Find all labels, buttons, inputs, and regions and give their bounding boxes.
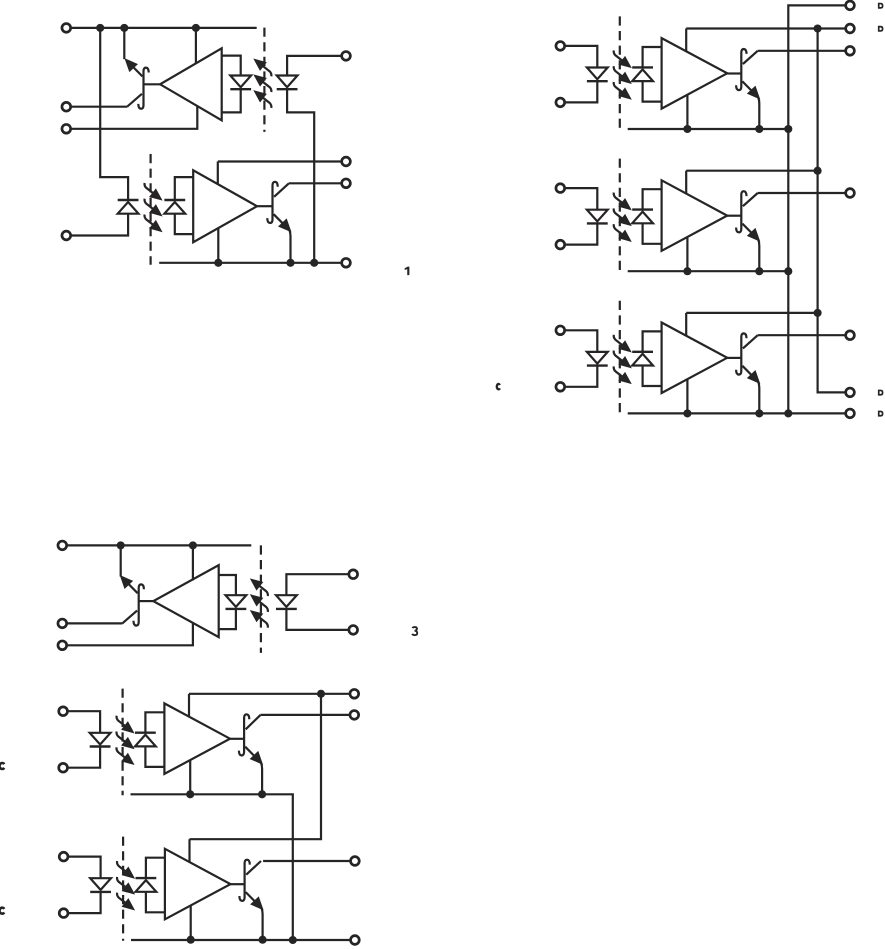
- wire base G4ch2: [231, 883, 245, 885]
- wire G1 photodiode D2 top: [175, 177, 193, 200]
- light arrow G4ch2-3: [117, 893, 127, 904]
- wire G1 VCC2 line: [218, 160, 342, 162]
- emitter wire to rail G2ch3: [758, 382, 759, 414]
- light arrow G1 lower-1: [145, 183, 155, 194]
- amplifier G2ch2: [662, 180, 728, 251]
- label GND D: [878, 411, 884, 417]
- wire G2 gnd rail ch3: [628, 412, 846, 414]
- light arrow G4ch1-2: [117, 732, 127, 743]
- wire G1 VCC top rail: [70, 27, 257, 29]
- light arrow G4ch1-3: [117, 747, 127, 758]
- junction G1 rail to amp A1: [192, 24, 200, 32]
- junction emitter G4ch2: [259, 936, 267, 944]
- wire G2 out ch3: [758, 334, 846, 336]
- wire G1 amp A1 vcc: [195, 28, 197, 64]
- transistor bar G4ch2: [239, 860, 249, 901]
- wire G1 GND2 rail: [159, 262, 342, 264]
- wire G4ch1 cathode: [67, 747, 100, 768]
- terminal G4 pin VO2: [351, 857, 360, 866]
- emitter wire to rail G2ch1: [758, 98, 759, 130]
- terminal G2 pin VO1: [846, 46, 855, 55]
- op-amp A1 (G1 receive amp): [160, 48, 222, 120]
- photodiode G2ch3: [632, 354, 653, 366]
- wire G1 VO2 output: [289, 182, 342, 184]
- junction amp gnd G2ch1: [683, 125, 691, 133]
- junction amp gnd G2ch2: [683, 267, 691, 275]
- isolation barrier G4ch1: [121, 689, 123, 796]
- terminal G2 pin GND: [846, 409, 855, 418]
- wire photodiode top G2ch1: [643, 47, 662, 67]
- light arrow G4ch2-1: [117, 861, 127, 872]
- wire photodiode bottom G2ch2: [643, 223, 662, 244]
- wire G1 photodiode D1 bottom: [222, 89, 241, 112]
- light arrow G2ch2-3: [614, 224, 624, 235]
- wire G1 LED2 anode: [70, 214, 128, 236]
- label figure 3: [412, 627, 417, 635]
- photodiode D1 (G1 receive): [230, 76, 251, 88]
- =G1= top-left dual bidirectional optocoupler: [62, 24, 409, 276]
- wire G1 photodiode D1 top: [222, 56, 241, 76]
- junction amp gnd G2ch3: [683, 409, 691, 417]
- terminal G4 pin GND: [351, 936, 360, 945]
- wire G3 photodiode bottom: [219, 609, 236, 629]
- emitter wire to rail G4ch2: [262, 908, 263, 940]
- wire Q2 emitter to rail: [290, 230, 291, 262]
- wire amp gnd G4ch1: [189, 760, 191, 794]
- photodiode G4ch2: [136, 880, 157, 892]
- emitter wire to rail G4ch1: [261, 763, 262, 795]
- collector lead G2ch1: [743, 51, 758, 64]
- terminal G1 pin GND1: [62, 124, 71, 133]
- junction G1 LED1 cathode on rail: [310, 259, 318, 267]
- light arrow G2ch3-3: [614, 366, 624, 377]
- wire photodiode top G2ch3: [643, 331, 662, 351]
- wire G2 gnd rail ch2: [628, 270, 789, 272]
- wire amp gnd G2ch2: [686, 237, 688, 271]
- junction G2 rail3-busA: [784, 409, 792, 417]
- junction amp gnd G4ch2: [187, 936, 195, 944]
- emitter with arrow G2ch3: [742, 366, 757, 381]
- terminal G3 pin VO: [58, 619, 67, 628]
- wire G1 LED1 anode: [287, 56, 342, 76]
- =channel G4 ch1=: [59, 689, 266, 799]
- wire base G2ch2: [727, 215, 741, 217]
- wire amp vcc G2ch2: [685, 171, 687, 194]
- wire G2ch2 cathode: [564, 223, 597, 244]
- wire G2 VDD line ch2: [686, 170, 817, 172]
- junction emitter G4ch1: [258, 790, 266, 798]
- wire G2ch3 cathode: [564, 366, 597, 387]
- light arrow G2ch1-3: [614, 82, 624, 93]
- wire G3 photodiode top: [219, 575, 236, 595]
- light arrow G3-3: [258, 616, 268, 627]
- light arrow G2ch3-2: [614, 351, 624, 362]
- =G4= bottom-left dual transmit channels: [0, 689, 359, 945]
- wire G3 amp vcc: [192, 545, 194, 580]
- terminal G1 pin VCC: [62, 24, 71, 33]
- =channel G2 ch2=: [556, 159, 763, 276]
- amplifier G2ch1: [662, 38, 728, 109]
- transistor Q3 collector lead: [122, 611, 137, 624]
- label node C (G2): [497, 384, 500, 389]
- wire G1 amp A2 gnd: [217, 228, 219, 262]
- photodiode G4ch1: [135, 735, 156, 747]
- G2ch1 anode input terminal: [556, 42, 565, 51]
- junction G2 rail1-busA: [784, 125, 792, 133]
- transistor bar G2ch3: [736, 333, 746, 374]
- LED G2ch2: [587, 210, 608, 222]
- isolation barrier G1 upper: [263, 28, 265, 132]
- wire G2 out ch2: [758, 192, 846, 194]
- wire G4 gnd rail ch1: [131, 794, 293, 940]
- transistor Q1 collector lead: [127, 94, 142, 107]
- amplifier G4ch1: [164, 703, 230, 774]
- terminal G1 pin GND2: [342, 258, 351, 267]
- wire base G2ch3: [727, 357, 741, 359]
- junction emitter G2ch2: [755, 267, 763, 275]
- G4ch1 cathode input terminal: [59, 763, 68, 772]
- wire G3 LED cathode: [286, 609, 349, 630]
- wire G1 amp A2 vcc: [217, 162, 219, 185]
- transistor Q3 emitter with arrow: [123, 578, 138, 593]
- G4ch1 anode input terminal: [59, 707, 68, 716]
- junction G1 amp A2 gnd: [214, 259, 222, 267]
- =channel G2 ch1=: [556, 16, 763, 133]
- wire amp vcc G4ch1: [188, 694, 190, 717]
- junction G4 rail drop: [289, 936, 297, 944]
- wire amp vcc G2ch3: [685, 313, 687, 336]
- terminal G1 pin A2: [62, 231, 71, 240]
- terminal G1 pin VO1: [62, 102, 71, 111]
- junction G2 vdd2-busB: [814, 167, 822, 175]
- wire base G2ch1: [727, 72, 741, 74]
- =G3= bottom-left single receive channel: [58, 541, 417, 653]
- wire G3 LED anode: [286, 574, 349, 595]
- wire photodiode top G4ch1: [145, 712, 164, 732]
- light arrow G2ch3-1: [614, 335, 624, 346]
- wire G2 busB: [818, 29, 846, 393]
- G4ch2 anode input terminal: [59, 852, 68, 861]
- wire G4ch2 cathode: [68, 892, 101, 913]
- wire amp vcc G2ch1: [685, 29, 687, 52]
- wire photodiode bottom G4ch2: [146, 892, 165, 913]
- light arrow G3-2: [258, 601, 268, 612]
- junction G3 rail-amp: [189, 541, 197, 549]
- isolation barrier G4ch2: [122, 837, 124, 941]
- wire G4 gnd rail ch2: [131, 939, 351, 941]
- isolation barrier G3: [260, 545, 262, 653]
- terminal G3 pin A: [349, 570, 358, 579]
- wire G1 Q1 emitter supply: [123, 28, 125, 59]
- wire G3 Q base: [139, 600, 154, 602]
- light arrow G1 lower-2: [145, 199, 155, 210]
- light arrow G1 lower-3: [145, 215, 155, 226]
- light arrow G4ch1-1: [117, 716, 127, 727]
- wire G1 Q1 base: [144, 83, 161, 85]
- op-amp A2 (G1 amp2): [193, 170, 257, 242]
- label node C left1: [0, 763, 4, 769]
- terminal G3 pin K: [349, 626, 358, 635]
- G2ch2 anode input terminal: [556, 184, 565, 193]
- wire G1 LED1 cathode to rail: [287, 89, 314, 263]
- wire G3 amp gnd: [66, 622, 193, 645]
- terminal G2 pin VDD2: [846, 388, 855, 397]
- terminal G4 pin VDD1: [350, 689, 359, 698]
- wire photodiode bottom G4ch1: [145, 746, 164, 767]
- light arrow G4ch2-2: [117, 877, 127, 888]
- light arrow G2ch2-1: [614, 193, 624, 204]
- amplifier G2ch3: [662, 323, 728, 394]
- G2ch1 cathode input terminal: [556, 98, 565, 107]
- terminal G4 pin VO1: [350, 711, 359, 720]
- wire G2ch1 cathode: [564, 81, 597, 102]
- light arrow G1 upper-2: [261, 81, 271, 92]
- light arrow G3-1: [258, 585, 268, 596]
- junction G1 Q2 emitter: [286, 259, 294, 267]
- =channel G4 ch2=: [59, 837, 266, 944]
- wire G2ch1 anode: [564, 46, 597, 68]
- wire G2ch2 anode: [564, 188, 597, 210]
- wire amp gnd G4ch2: [190, 905, 192, 939]
- light arrow G1 upper-3: [261, 97, 271, 108]
- transistor bar G2ch2: [736, 191, 746, 232]
- LED LED2 (G1 transmit): [118, 202, 139, 214]
- terminal G2 pin VO2: [846, 189, 855, 198]
- wire G1 amp A1 gnd: [70, 106, 197, 129]
- G2ch2 cathode input terminal: [556, 240, 565, 249]
- transistor Q1 emitter with arrow: [128, 61, 143, 76]
- collector lead G4ch2: [246, 861, 261, 875]
- label VDD3 D: [878, 390, 884, 396]
- photodiode G2ch1: [632, 69, 653, 81]
- wire amp vcc G4ch2: [188, 839, 190, 862]
- junction G2 rail2-busA: [784, 267, 792, 275]
- junction G2 busB top: [814, 24, 822, 32]
- G2ch3 cathode input terminal: [556, 382, 565, 391]
- photodiode D3 (G3): [226, 595, 247, 607]
- wire G1 Q2 base: [257, 205, 273, 207]
- LED LED3 (G3): [276, 595, 297, 607]
- wire G2 gnd rail ch1: [628, 128, 789, 130]
- wire G2 busA: [788, 5, 845, 413]
- wire photodiode top G2ch2: [643, 189, 662, 209]
- terminal G1 pin A1: [342, 52, 351, 61]
- transistor bar G2ch1: [736, 49, 746, 90]
- transistor Q3 (G3) bar: [134, 584, 144, 625]
- junction G3 rail-Q emitter: [117, 541, 125, 549]
- terminal G2 pin top: [846, 1, 855, 10]
- amplifier G4ch2: [165, 849, 231, 920]
- collector lead G4ch1: [246, 715, 261, 729]
- collector lead G2ch3: [743, 335, 758, 348]
- wire G2 VDD line ch1: [686, 27, 845, 29]
- wire G4 VDD line ch1: [189, 693, 351, 695]
- terminal G2 pin VO3: [846, 331, 855, 340]
- junction G2 vdd3-busB: [814, 309, 822, 317]
- isolation barrier G2ch3: [619, 301, 621, 415]
- terminal G1 pin VO2: [342, 179, 351, 188]
- photodiode G2ch2: [632, 212, 653, 224]
- wire G3 Q emitter supply: [120, 545, 122, 576]
- wire photodiode bottom G2ch3: [643, 366, 662, 387]
- isolation barrier G1 lower: [150, 154, 152, 265]
- isolation barrier G2ch2: [619, 159, 621, 273]
- junction G4 vdd bus: [317, 690, 325, 698]
- =G2= top-right triple optocoupler: [497, 1, 884, 418]
- wire G3 collector out: [66, 622, 122, 624]
- wire G3 VCC top rail: [66, 544, 251, 546]
- emitter wire to rail G2ch2: [758, 240, 759, 272]
- wire G1 photodiode D2 bottom: [175, 214, 193, 234]
- wire G1 Q1 collector to pin: [70, 106, 127, 108]
- LED LED1 (G1 transmit-in): [277, 76, 298, 88]
- transistor Q2 collector lead: [274, 183, 289, 197]
- =channel G2 ch3=: [556, 301, 763, 418]
- wire G1 LED2 cathode supply: [100, 28, 128, 200]
- light arrow G2ch1-1: [614, 50, 624, 61]
- emitter with arrow G2ch1: [742, 81, 757, 96]
- LED G4ch1: [90, 733, 111, 745]
- isolation barrier G2ch1: [619, 16, 621, 130]
- transistor bar G4ch1: [239, 714, 249, 755]
- wire G4ch1 anode: [67, 711, 100, 733]
- terminal G3 pin VCC: [58, 541, 67, 550]
- G2ch3 anode input terminal: [556, 326, 565, 335]
- G4ch2 cathode input terminal: [59, 909, 68, 918]
- LED G4ch2: [90, 878, 111, 890]
- wire G2ch3 anode: [564, 330, 597, 352]
- junction amp gnd G4ch1: [186, 790, 194, 798]
- junction emitter G2ch3: [755, 409, 763, 417]
- wire base G4ch1: [230, 738, 244, 740]
- wire G4 out ch1: [261, 714, 351, 716]
- terminal G2 pin VDD: [846, 24, 855, 33]
- op-amp A3 (G3): [153, 565, 218, 637]
- wire amp gnd G2ch3: [686, 379, 688, 413]
- wire G4 out ch2: [263, 860, 351, 862]
- label figure 1: [405, 267, 410, 276]
- light arrow G2ch1-2: [614, 66, 624, 77]
- wire amp gnd G2ch1: [686, 95, 688, 129]
- LED G2ch3: [587, 352, 608, 364]
- transistor Q2 (G1) bar: [267, 182, 277, 223]
- wire G4ch2 anode: [68, 857, 101, 879]
- LED G2ch1: [587, 68, 608, 80]
- light arrow G2ch2-2: [614, 208, 624, 219]
- wire G2 VDD line ch3: [686, 312, 817, 314]
- terminal G1 pin VCC2: [342, 157, 351, 166]
- wire G2 out ch1: [758, 50, 846, 52]
- transistor Q1 (G1 receive) bar: [138, 68, 148, 109]
- emitter with arrow G4ch1: [245, 747, 260, 762]
- label VDD2 D: [878, 26, 884, 32]
- label node C left2: [0, 908, 4, 914]
- transistor Q2 emitter with arrow: [274, 214, 289, 229]
- label VDD top D: [878, 3, 884, 9]
- junction emitter G2ch1: [755, 125, 763, 133]
- terminal G3 pin GND: [58, 641, 67, 650]
- wire G4 vdd bus down: [190, 694, 322, 839]
- wire photodiode bottom G2ch1: [643, 81, 662, 102]
- emitter with arrow G2ch2: [742, 224, 757, 239]
- wire photodiode top G4ch2: [146, 858, 165, 878]
- junction G1 rail to Q1 emitter: [120, 24, 128, 32]
- light arrow G1 upper-1: [261, 65, 271, 76]
- emitter with arrow G4ch2: [246, 892, 261, 907]
- collector lead G2ch2: [743, 193, 758, 206]
- junction G1 rail to LED2: [96, 24, 104, 32]
- photodiode D2 (G1 receive2): [164, 202, 185, 214]
